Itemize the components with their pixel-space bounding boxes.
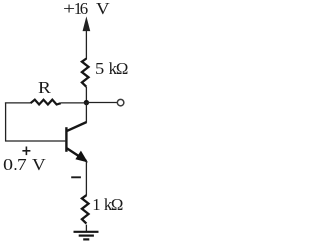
left vertical wire xyxy=(5,103,7,142)
wire left to R xyxy=(5,102,31,104)
wire 1k to ground xyxy=(85,225,87,231)
node dot xyxy=(84,100,89,105)
emitter vertical wire xyxy=(85,161,87,196)
minus sign polarity xyxy=(71,176,81,178)
ground xyxy=(74,232,99,240)
supply arrow +16V xyxy=(83,18,89,59)
wire node to output xyxy=(86,102,117,104)
label 0.7 V xyxy=(3,157,13,174)
wire 5k to node xyxy=(85,87,87,103)
output terminal circle xyxy=(117,99,124,106)
label +16 V xyxy=(63,1,75,18)
resistor 1k xyxy=(82,195,89,223)
collector diagonal xyxy=(66,122,86,131)
wire R to node xyxy=(61,102,87,104)
resistor 5k xyxy=(82,59,89,87)
plus sign polarity xyxy=(22,147,30,156)
emitter arrowhead xyxy=(76,152,87,162)
base wire xyxy=(5,140,65,142)
base bar xyxy=(65,127,67,152)
emitter diagonal xyxy=(66,148,86,161)
collector vertical xyxy=(85,103,87,123)
label 1 kOhm xyxy=(92,197,100,214)
transistor Q1 xyxy=(66,103,86,161)
label 5 kOhm xyxy=(95,61,104,78)
label R xyxy=(38,80,51,97)
resistor R horizontal xyxy=(31,100,61,105)
